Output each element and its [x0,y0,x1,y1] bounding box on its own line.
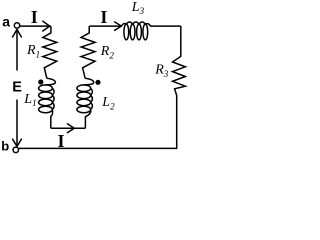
svg-text:a: a [2,14,10,30]
svg-text:I: I [58,131,65,151]
svg-text:I: I [31,7,38,27]
svg-text:b: b [1,139,9,154]
svg-text:I: I [100,7,107,27]
svg-text:E: E [12,79,22,95]
